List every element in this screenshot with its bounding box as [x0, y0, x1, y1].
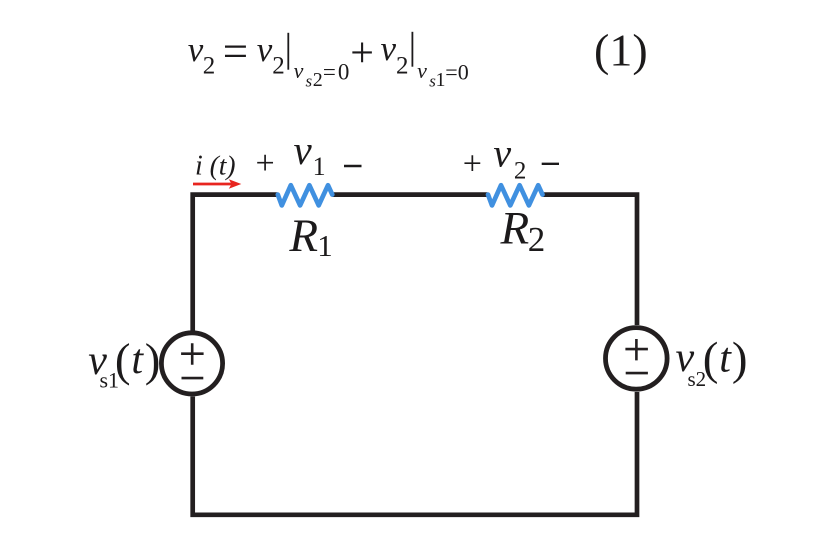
- svg-text:1: 1: [317, 228, 333, 263]
- svg-text:2: 2: [514, 158, 527, 185]
- svg-text:t: t: [131, 337, 144, 383]
- svg-text:=0: =0: [445, 59, 468, 84]
- label R1: [288, 210, 332, 263]
- label v1: [294, 127, 326, 181]
- v2 minus polarity: [542, 163, 559, 165]
- svg-text:v: v: [188, 30, 204, 69]
- label v_s1(t): [88, 335, 160, 393]
- svg-text:s: s: [306, 71, 313, 90]
- svg-text:R: R: [500, 203, 530, 255]
- svg-text:(t): (t): [210, 149, 236, 180]
- V_s1 minus sign: [182, 377, 204, 380]
- equation third v2: [381, 29, 409, 79]
- svg-text:v: v: [294, 127, 313, 173]
- wire: top middle between R1 and R2: [333, 192, 488, 197]
- condition vs1=0: [417, 58, 469, 91]
- label R2: [500, 203, 546, 259]
- V_s2 plus sign: [625, 339, 648, 360]
- svg-text:v: v: [257, 30, 273, 69]
- evaluation bar 2: [411, 32, 413, 67]
- svg-text:2: 2: [203, 53, 216, 80]
- resistor R1 zigzag: [278, 185, 333, 205]
- svg-text:(1): (1): [594, 25, 648, 76]
- svg-text:v: v: [417, 58, 427, 83]
- voltage source V_s2 circle: [606, 328, 668, 390]
- svg-text:t: t: [719, 335, 732, 381]
- label v2: [493, 131, 526, 185]
- svg-text:): ): [145, 335, 161, 387]
- svg-text:(: (: [703, 333, 719, 385]
- svg-text:v: v: [493, 131, 511, 176]
- svg-text:1: 1: [313, 152, 326, 181]
- current arrow (red): [193, 183, 233, 186]
- resistor R2 zigzag: [488, 185, 543, 205]
- svg-text:v: v: [294, 58, 304, 83]
- equation second v2: [257, 30, 285, 80]
- svg-text:=: =: [223, 27, 248, 77]
- V_s2 minus sign: [626, 372, 648, 375]
- V_s1 plus sign: [181, 343, 204, 364]
- svg-text:i: i: [195, 150, 203, 181]
- svg-text:+: +: [256, 145, 275, 182]
- svg-text:): ): [732, 333, 748, 385]
- svg-text:=0: =0: [323, 59, 351, 84]
- condition vs2=0: [294, 58, 352, 91]
- svg-text:v: v: [381, 29, 397, 68]
- equation (1): first term v2: [188, 30, 215, 80]
- svg-text:1: 1: [436, 69, 446, 91]
- wire: left lower vertical, bottom wire, right lower vertical: [193, 392, 637, 515]
- voltage source V_s1 circle: [161, 333, 222, 394]
- svg-text:R: R: [288, 210, 318, 262]
- evaluation bar 1: [287, 33, 289, 70]
- svg-text:(: (: [115, 335, 131, 387]
- v1 minus polarity: [344, 165, 362, 168]
- svg-text:+: +: [463, 146, 482, 183]
- svg-text:+: +: [350, 31, 374, 77]
- wire: top-right corner and right upper vertical: [543, 195, 638, 325]
- svg-text:2: 2: [272, 53, 285, 80]
- svg-text:2: 2: [528, 220, 546, 259]
- wire: top-left corner and left upper vertical: [193, 195, 278, 331]
- label v_s2(t): [676, 333, 748, 391]
- svg-text:2: 2: [313, 69, 323, 91]
- svg-text:2: 2: [396, 53, 409, 80]
